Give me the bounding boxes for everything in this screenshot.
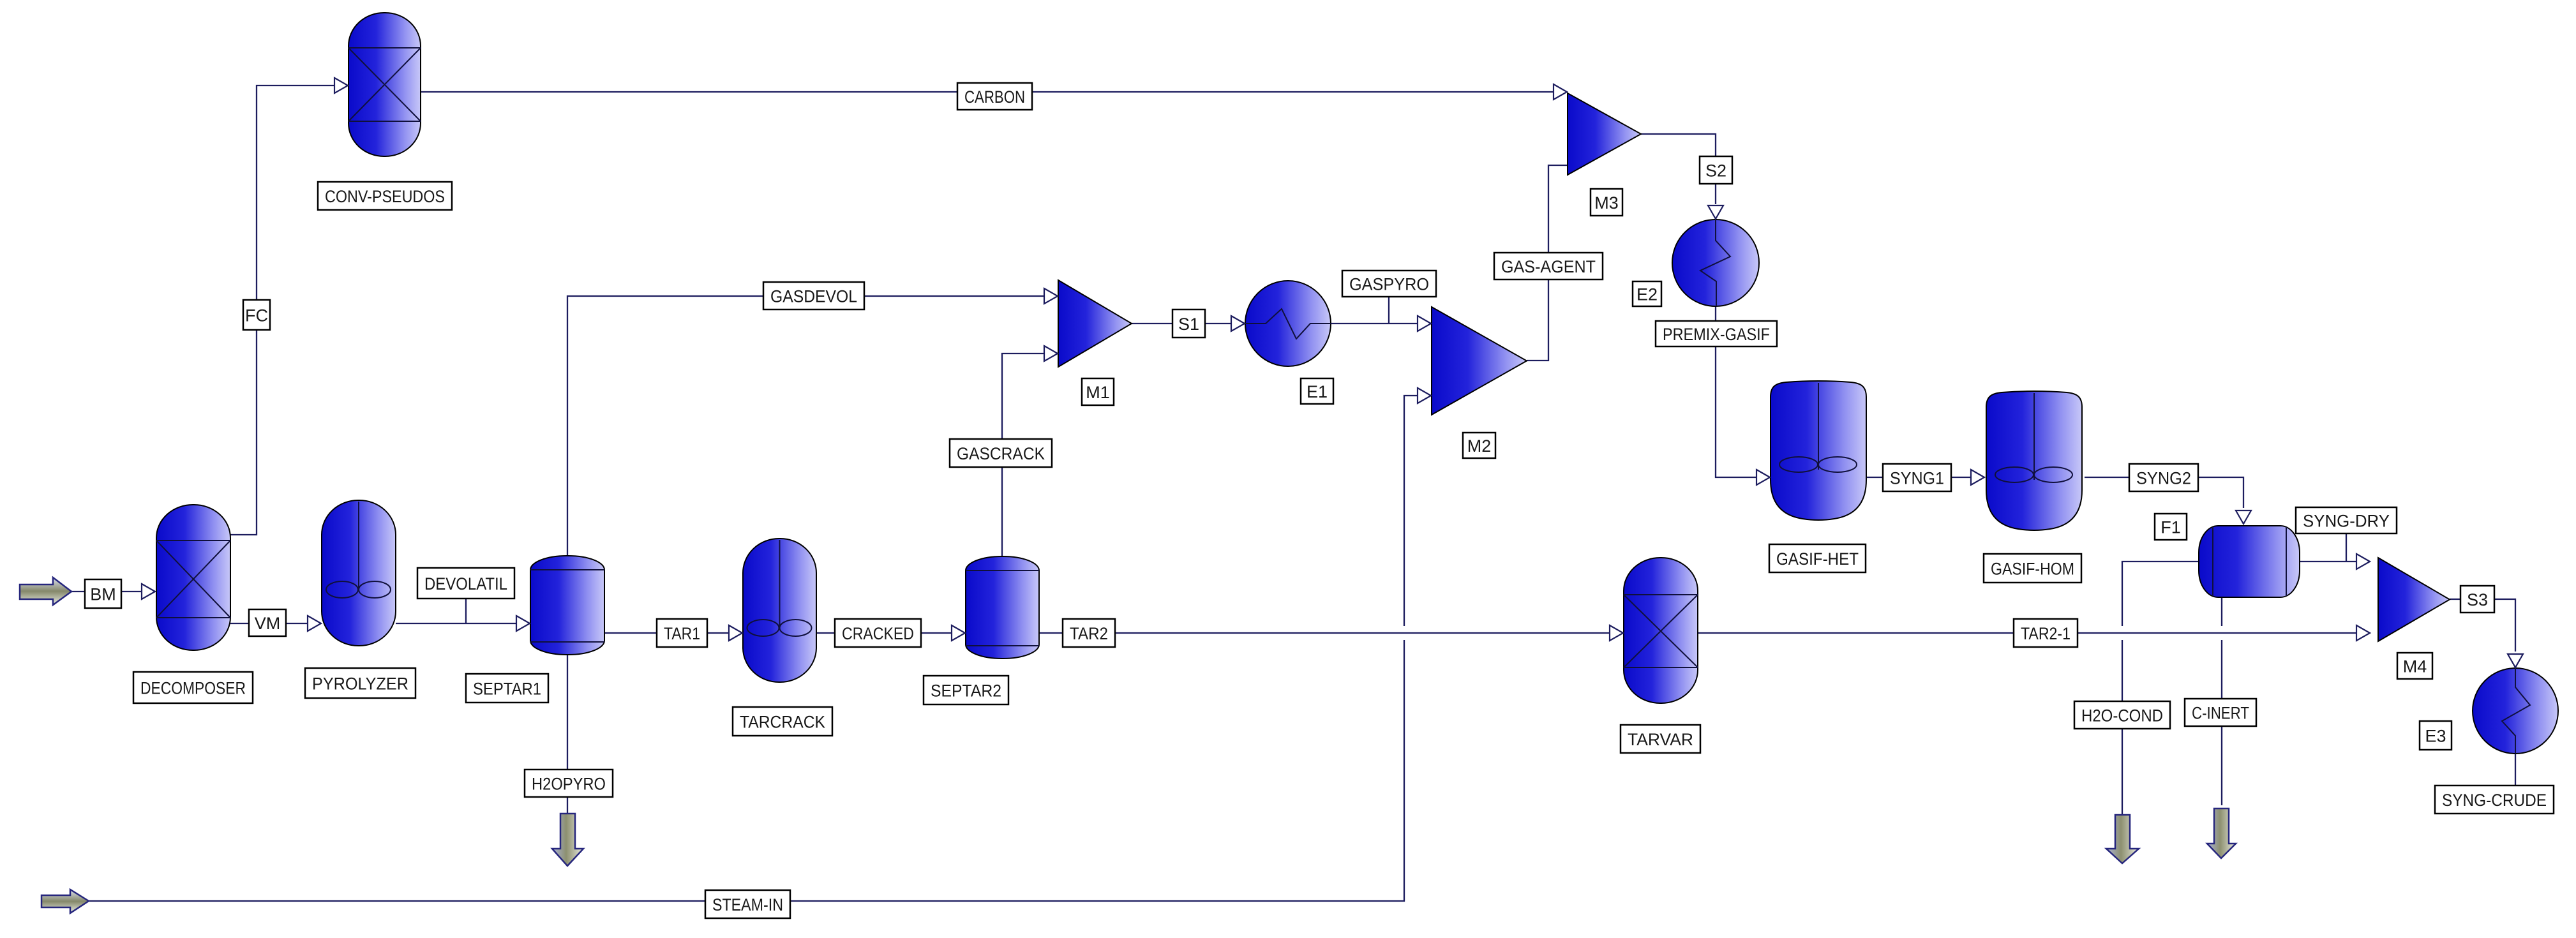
arrowhead into F1 bbox=[2236, 510, 2251, 524]
label stream GASDEVOL bbox=[763, 282, 864, 309]
reactor GASIF-HET bbox=[1771, 381, 1866, 520]
reactor GASIF-HOM bbox=[1986, 391, 2082, 530]
mixer M3 bbox=[1568, 93, 1641, 175]
reactor TARCRACK bbox=[743, 539, 816, 682]
label stream TAR1 bbox=[657, 619, 707, 647]
svg-text:GASDEVOL: GASDEVOL bbox=[770, 287, 857, 306]
svg-text:PREMIX-GASIF: PREMIX-GASIF bbox=[1663, 325, 1770, 344]
label stream CARBON bbox=[957, 83, 1032, 110]
label block SEPTAR1 bbox=[466, 674, 548, 703]
arrowhead into M1 top bbox=[1044, 288, 1058, 304]
svg-text:PYROLYZER: PYROLYZER bbox=[312, 674, 408, 694]
label block E3 bbox=[2420, 721, 2452, 750]
label stream PREMIX-GASIF bbox=[1656, 321, 1777, 346]
wire GASPYRO bbox=[1331, 297, 1418, 324]
label stream VM bbox=[249, 609, 286, 636]
feed arrow STEAM-IN bbox=[41, 890, 89, 913]
wire GAS-AGENT bbox=[1527, 165, 1567, 361]
label stream H2OPYRO bbox=[525, 770, 613, 797]
wire GASCRACK bbox=[1002, 354, 1044, 556]
wire BM bbox=[71, 591, 142, 592]
svg-text:SYNG2: SYNG2 bbox=[2136, 469, 2191, 488]
label stream CRACKED bbox=[835, 619, 921, 647]
wire TAR2 bbox=[1039, 632, 1610, 634]
product arrow H2O-COND bbox=[2106, 815, 2139, 863]
label block E1 bbox=[1301, 378, 1333, 404]
svg-text:CARBON: CARBON bbox=[964, 87, 1025, 107]
svg-text:H2O-COND: H2O-COND bbox=[2081, 706, 2163, 726]
label block M3 bbox=[1591, 189, 1622, 216]
label block SEPTAR2 bbox=[924, 676, 1008, 704]
svg-text:M2: M2 bbox=[1467, 436, 1492, 456]
mixer M2 bbox=[1432, 307, 1527, 415]
label stream TAR2-1 bbox=[2014, 619, 2078, 647]
svg-text:TAR2-1: TAR2-1 bbox=[2021, 624, 2071, 643]
wire SYNG-CRUDE bbox=[2515, 754, 2516, 785]
arrowhead into SEPTAR1 bbox=[516, 616, 530, 631]
label stream SYNG-CRUDE bbox=[2435, 785, 2554, 814]
svg-text:VM: VM bbox=[255, 614, 281, 633]
label block CONV-PSEUDOS bbox=[318, 182, 452, 210]
label block F1 bbox=[2155, 514, 2187, 540]
arrowhead into CONV-PSEUDOS bbox=[334, 78, 348, 93]
svg-text:M4: M4 bbox=[2403, 657, 2427, 676]
svg-text:S2: S2 bbox=[1705, 161, 1726, 181]
svg-text:GASIF-HET: GASIF-HET bbox=[1776, 549, 1859, 569]
arrowhead into E3 bbox=[2508, 654, 2523, 667]
label block TARVAR bbox=[1621, 725, 1700, 753]
reactor PYROLYZER bbox=[322, 500, 396, 646]
wire DEVOLATIL bbox=[396, 599, 516, 623]
arrowhead into M2 bottom bbox=[1418, 388, 1431, 403]
svg-text:SYNG1: SYNG1 bbox=[1890, 469, 1944, 488]
svg-text:TAR1: TAR1 bbox=[664, 624, 700, 643]
label stream SYNG1 bbox=[1883, 464, 1951, 491]
reactor TARVAR bbox=[1624, 558, 1698, 703]
arrowhead into GASIF-HET bbox=[1756, 470, 1770, 485]
label stream S1 bbox=[1172, 309, 1205, 338]
label block DECOMPOSER bbox=[133, 672, 253, 703]
svg-text:FC: FC bbox=[245, 306, 268, 325]
arrowhead into M2 top bbox=[1418, 316, 1431, 331]
label stream STEAM-IN bbox=[705, 890, 790, 918]
label stream H2O-COND bbox=[2074, 701, 2170, 729]
svg-text:S3: S3 bbox=[2467, 590, 2488, 609]
svg-text:TARCRACK: TARCRACK bbox=[740, 713, 825, 732]
label stream SYNG2 bbox=[2129, 464, 2198, 491]
wire STEAM-IN bbox=[89, 396, 1418, 901]
label block PYROLYZER bbox=[305, 668, 416, 698]
label stream TAR2 bbox=[1063, 619, 1115, 647]
label stream DEVOLATIL bbox=[417, 568, 514, 599]
reactor CONV-PSEUDOS bbox=[348, 13, 421, 156]
arrowhead into TARCRACK bbox=[729, 625, 742, 641]
arrowhead into M4 top bbox=[2356, 554, 2370, 569]
wire VM bbox=[230, 623, 308, 624]
arrowhead into M1 bottom bbox=[1044, 346, 1058, 361]
label stream S3 bbox=[2460, 586, 2494, 613]
label stream FC bbox=[243, 300, 270, 330]
wire H2O-COND bbox=[2122, 562, 2199, 815]
label stream GASPYRO bbox=[1342, 271, 1436, 297]
wire S3 bbox=[2450, 599, 2515, 651]
wire CRACKED bbox=[816, 632, 952, 634]
svg-text:M1: M1 bbox=[1086, 383, 1110, 402]
mixer M1 bbox=[1058, 280, 1132, 367]
label block M4 bbox=[2397, 653, 2432, 679]
svg-text:S1: S1 bbox=[1178, 315, 1199, 334]
svg-text:C-INERT: C-INERT bbox=[2192, 704, 2249, 723]
wire SYNG2 bbox=[2085, 477, 2243, 508]
svg-text:SYNG-CRUDE: SYNG-CRUDE bbox=[2442, 791, 2547, 810]
label stream GASCRACK bbox=[950, 439, 1052, 467]
svg-text:SYNG-DRY: SYNG-DRY bbox=[2303, 512, 2390, 531]
svg-text:TAR2: TAR2 bbox=[1070, 624, 1108, 643]
svg-text:F1: F1 bbox=[2160, 518, 2181, 537]
arrowhead into M3 top bbox=[1554, 84, 1567, 100]
label block M2 bbox=[1463, 433, 1495, 458]
label block E2 bbox=[1633, 281, 1661, 306]
wire S1 bbox=[1132, 323, 1231, 324]
separator SEPTAR2 bbox=[966, 556, 1039, 659]
arrowhead into SEPTAR2 bbox=[952, 625, 965, 641]
feed arrow BM bbox=[20, 577, 71, 605]
wire GASDEVOL bbox=[567, 296, 1044, 556]
heater E3 bbox=[2473, 668, 2558, 754]
label stream GAS-AGENT bbox=[1494, 253, 1603, 279]
svg-text:DEVOLATIL: DEVOLATIL bbox=[424, 574, 507, 593]
svg-text:SEPTAR1: SEPTAR1 bbox=[473, 680, 541, 699]
label stream BM bbox=[85, 579, 121, 608]
arrowhead into E1 bbox=[1231, 316, 1245, 331]
wire TAR2-1 bbox=[1698, 632, 2356, 634]
label stream C-INERT bbox=[2185, 699, 2256, 726]
separator SEPTAR1 bbox=[530, 556, 604, 655]
svg-text:GASCRACK: GASCRACK bbox=[957, 444, 1045, 463]
svg-text:CONV-PSEUDOS: CONV-PSEUDOS bbox=[325, 187, 445, 206]
svg-text:GASIF-HOM: GASIF-HOM bbox=[1991, 560, 2074, 579]
wire SYNG1 bbox=[1866, 477, 1970, 478]
label stream S2 bbox=[1700, 156, 1732, 184]
wire S2 bbox=[1641, 134, 1716, 204]
svg-text:SEPTAR2: SEPTAR2 bbox=[931, 681, 1001, 701]
product arrow H2OPYRO bbox=[552, 814, 583, 866]
wire FC bbox=[230, 86, 334, 535]
wire H2OPYRO bbox=[567, 655, 568, 815]
heater E1 bbox=[1245, 281, 1331, 366]
svg-text:TARVAR: TARVAR bbox=[1628, 730, 1693, 749]
wire CARBON bbox=[421, 91, 1554, 93]
wire C-INERT bbox=[2221, 597, 2222, 805]
svg-text:DECOMPOSER: DECOMPOSER bbox=[140, 679, 246, 698]
label stream SYNG-DRY bbox=[2296, 507, 2397, 533]
arrowhead into PYROLYZER bbox=[308, 616, 321, 631]
label block TARCRACK bbox=[733, 707, 832, 736]
heater E2 bbox=[1672, 220, 1759, 306]
separator F1 bbox=[2199, 526, 2300, 597]
arrowhead into M4 bottom bbox=[2356, 625, 2370, 641]
svg-text:E1: E1 bbox=[1307, 382, 1328, 401]
svg-text:BM: BM bbox=[90, 585, 116, 604]
product arrow C-INERT bbox=[2207, 808, 2236, 858]
svg-text:E3: E3 bbox=[2425, 727, 2446, 746]
wire SYNG-DRY bbox=[2300, 533, 2356, 562]
svg-text:GAS-AGENT: GAS-AGENT bbox=[1501, 257, 1596, 276]
svg-text:E2: E2 bbox=[1636, 285, 1658, 304]
svg-text:CRACKED: CRACKED bbox=[842, 624, 914, 643]
svg-text:GASPYRO: GASPYRO bbox=[1349, 275, 1429, 294]
arrowhead into E2 bbox=[1708, 205, 1723, 219]
label block GASIF-HOM bbox=[1984, 554, 2081, 583]
wire TAR1 bbox=[604, 632, 729, 634]
reactor DECOMPOSER bbox=[156, 505, 230, 650]
arrowhead into GASIF-HOM bbox=[1971, 470, 1984, 485]
label block M1 bbox=[1082, 378, 1114, 405]
svg-text:M3: M3 bbox=[1594, 193, 1619, 212]
wire PREMIX-GASIF bbox=[1716, 306, 1756, 477]
svg-text:H2OPYRO: H2OPYRO bbox=[532, 775, 606, 794]
arrowhead into TARVAR bbox=[1610, 625, 1623, 641]
label block GASIF-HET bbox=[1769, 544, 1866, 572]
mixer M4 bbox=[2378, 558, 2450, 641]
svg-text:STEAM-IN: STEAM-IN bbox=[712, 895, 783, 914]
arrowhead into DECOMPOSER bbox=[142, 584, 155, 599]
